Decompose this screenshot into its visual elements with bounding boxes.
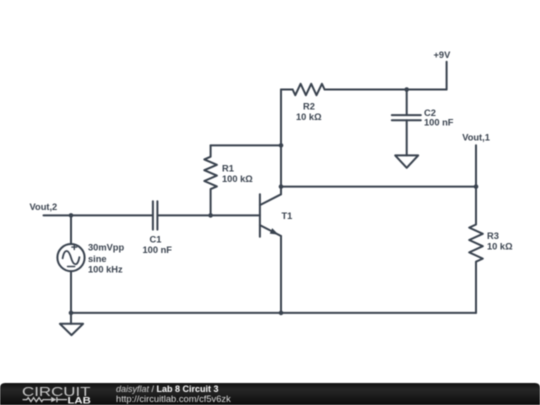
power +9V stub xyxy=(446,62,448,90)
wire bottom rail xyxy=(71,312,476,314)
voltage source V1 circle xyxy=(57,244,84,271)
junction (R1 top / collector) xyxy=(279,143,284,148)
svg-text:30mVpp: 30mVpp xyxy=(88,242,124,252)
wire top rail right segment (R2 to +9V corner) xyxy=(325,89,447,91)
wire top rail left segment (collector to R2) xyxy=(281,89,293,91)
wire input right segment (C1 to base) xyxy=(158,214,259,216)
ground (bottom-left) xyxy=(60,324,83,335)
junction (C2 / top rail) xyxy=(404,87,409,92)
transistor T1 collector diagonal xyxy=(260,194,281,205)
svg-text:100 nF: 100 nF xyxy=(424,118,454,128)
transistor T1 emitter diagonal xyxy=(260,225,281,236)
junction (emitter / bottom rail) xyxy=(279,311,284,316)
svg-text:daisyflat / Lab 8 Circuit 3: daisyflat / Lab 8 Circuit 3 xyxy=(116,384,219,394)
wire source top lead xyxy=(70,215,72,244)
capacitor C1 xyxy=(153,201,158,229)
wire C2 bottom lead xyxy=(406,120,408,155)
svg-text:100 kHz: 100 kHz xyxy=(88,265,123,275)
transistor T1 base bar xyxy=(259,194,261,236)
wire source bottom lead xyxy=(70,271,72,313)
svg-text:LAB: LAB xyxy=(68,395,91,405)
ground (below C2) xyxy=(395,155,418,167)
wire R1 top (to collector line) xyxy=(211,144,281,146)
svg-text:Vout,2: Vout,2 xyxy=(30,202,58,212)
wire collector node to Vout,1 xyxy=(281,186,476,188)
junction (source / input wire) xyxy=(69,213,74,218)
svg-text:100 nF: 100 nF xyxy=(143,245,173,255)
resistor R3 xyxy=(469,187,483,313)
svg-text:R3: R3 xyxy=(487,231,499,241)
capacitor C2 xyxy=(392,115,421,120)
node Vout,1 stub xyxy=(475,145,477,186)
svg-text:sine: sine xyxy=(88,254,107,264)
junction (source / bottom rail) xyxy=(69,311,74,316)
svg-text:R1: R1 xyxy=(222,164,234,174)
logo diode triangle xyxy=(51,397,56,402)
svg-text:R2: R2 xyxy=(303,102,315,112)
transistor T1 emitter arrowhead xyxy=(270,228,279,235)
wire C2 top lead xyxy=(406,90,408,116)
svg-text:100 kΩ: 100 kΩ xyxy=(222,174,253,184)
junction (Vout,1 / R3) xyxy=(474,184,479,189)
svg-text:http://circuitlab.com/cf5v6zk: http://circuitlab.com/cf5v6zk xyxy=(116,394,231,404)
voltage source sine symbol xyxy=(63,251,80,264)
junction (C1 / R1 / base) xyxy=(208,213,213,218)
svg-text:10 kΩ: 10 kΩ xyxy=(296,112,322,122)
resistor R2 xyxy=(293,84,325,95)
wire ground stub bottom-left xyxy=(70,313,72,324)
svg-text:10 kΩ: 10 kΩ xyxy=(487,242,513,252)
logo resistor-diode glyph xyxy=(23,397,67,402)
junction (collector node) xyxy=(279,184,284,189)
voltage source plus sign xyxy=(72,245,77,250)
svg-text:+9V: +9V xyxy=(434,50,452,60)
wire collector vertical (R2 rail down to T1) xyxy=(280,90,282,195)
wire emitter vertical xyxy=(280,236,282,313)
svg-text:T1: T1 xyxy=(282,211,293,221)
svg-text:C1: C1 xyxy=(150,234,162,244)
wire input left segment (Vout,2 to C1) xyxy=(44,214,153,216)
voltage source minus sign xyxy=(68,266,75,268)
footer bar xyxy=(0,383,540,405)
resistor R1 xyxy=(204,145,217,215)
svg-text:C2: C2 xyxy=(424,108,436,118)
svg-text:Vout,1: Vout,1 xyxy=(462,133,490,143)
